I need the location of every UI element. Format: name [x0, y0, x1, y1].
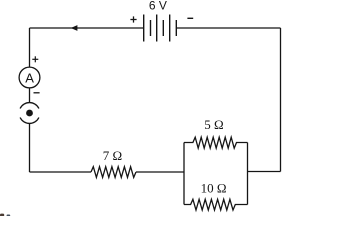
wire bottom middle segment [136, 171, 184, 173]
battery + label [130, 16, 136, 22]
svg-text:A: A [25, 70, 34, 85]
node: parallel right bar [247, 143, 249, 205]
ammeter - terminal label [34, 92, 40, 94]
ammeter + terminal label [32, 56, 38, 62]
current source symbol (broken circle with center dot) [20, 103, 39, 124]
resistor R2 5 ohm branch [184, 137, 248, 148]
ammeter A [19, 67, 40, 88]
wire bottom-right segment [248, 171, 281, 173]
svg-text:7 Ω: 7 Ω [103, 148, 122, 163]
wire left vertical upper [29, 28, 31, 67]
wire between ammeter and source [29, 88, 31, 103]
node: parallel left bar [183, 143, 185, 205]
battery BT1 (3 cells, 6 V) [144, 15, 177, 42]
resistor R1 7 ohm [91, 167, 136, 178]
battery - label [187, 17, 193, 19]
svg-text:6 V: 6 V [149, 0, 167, 13]
resistor R3 10 ohm branch [184, 199, 248, 210]
current direction arrow [71, 25, 78, 31]
svg-text:10 Ω: 10 Ω [201, 181, 227, 196]
clipped text fragment bottom-left [0, 214, 10, 217]
wire bottom-left segment [30, 171, 92, 173]
wire top-left segment [30, 27, 144, 29]
wire top-right segment [176, 27, 280, 29]
svg-text:5 Ω: 5 Ω [204, 117, 223, 132]
wire right vertical [280, 28, 282, 172]
wire left vertical lower [29, 123, 31, 172]
